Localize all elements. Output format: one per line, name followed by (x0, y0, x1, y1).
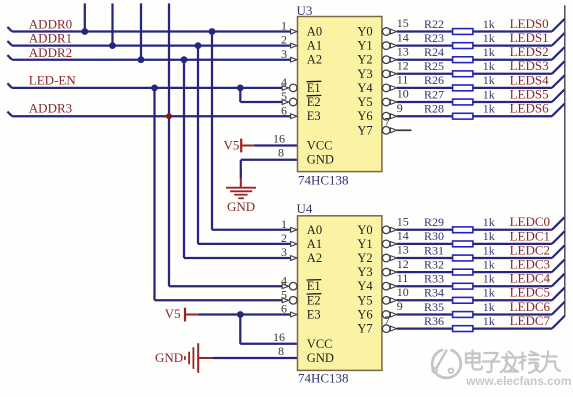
svg-text:11: 11 (397, 73, 409, 87)
svg-text:1k: 1k (483, 87, 495, 101)
svg-text:R27: R27 (424, 87, 444, 101)
junction ADDR0 / feeder (81, 28, 88, 35)
U3 pin name Y2 (357, 53, 372, 67)
resistor R25 (453, 71, 473, 77)
svg-text:VCC: VCC (307, 139, 333, 153)
svg-text:1k: 1k (483, 73, 495, 87)
svg-text:3: 3 (281, 47, 287, 61)
svg-text:Y4: Y4 (357, 279, 373, 293)
junction ADDR0 / U4 branch (209, 28, 216, 35)
wire U4 Y5 to resistor R34 (397, 299, 453, 301)
wire resistor R28 to LEDS6 (473, 115, 552, 117)
svg-text:1: 1 (281, 217, 287, 231)
svg-text:15: 15 (397, 215, 409, 229)
resistor R25 designator (424, 59, 444, 73)
off-sheet connector LEDC6 (552, 302, 565, 315)
U3 pin 1 (281, 19, 297, 34)
wire ground to U4 pin 8 (213, 357, 298, 359)
off-sheet connector LEDS1 (552, 33, 565, 46)
svg-text:15: 15 (397, 16, 409, 30)
svg-text:74HC138: 74HC138 (298, 371, 349, 386)
node LEDC5 label (510, 285, 550, 300)
resistor R28 designator (424, 102, 444, 116)
resistor R27 (453, 99, 473, 105)
svg-text:A1: A1 (307, 39, 322, 53)
resistor R31 (453, 255, 473, 261)
off-sheet connector LEDC5 (552, 288, 565, 301)
resistor R29 value 1k (483, 215, 495, 229)
wire U4 Y3 to resistor R32 (397, 271, 453, 273)
svg-text:E2: E2 (307, 293, 321, 307)
U4 pin 2 (281, 231, 297, 246)
off-sheet connector LEDC0 (552, 217, 565, 230)
U3 pin name E2 (307, 95, 322, 109)
svg-text:1k: 1k (483, 300, 495, 314)
svg-text:U3: U3 (297, 3, 313, 18)
U4 pin 3 (281, 245, 297, 260)
svg-text:A2: A2 (307, 53, 322, 67)
svg-text:R30: R30 (424, 229, 444, 243)
U3 pin name Y5 (357, 95, 372, 109)
svg-text:1k: 1k (483, 272, 495, 286)
resistor R32 (453, 269, 473, 275)
node LEDS6 label (510, 101, 549, 116)
svg-text:1k: 1k (483, 45, 495, 59)
svg-text:1k: 1k (483, 215, 495, 229)
U4 pin 6 (281, 302, 297, 317)
U4 reference designator (297, 201, 313, 216)
wire branch ADDR0 to U4 pin 1 (212, 32, 291, 230)
svg-text:14: 14 (397, 229, 409, 243)
resistor R24 value 1k (483, 45, 495, 59)
svg-text:9: 9 (397, 101, 403, 115)
resistor R33 designator (424, 272, 444, 286)
svg-text:Y2: Y2 (357, 53, 372, 67)
resistor R35 value 1k (483, 300, 495, 314)
off-sheet connector LEDS2 (552, 47, 565, 60)
ground symbol GND (upper) (226, 179, 256, 199)
svg-text:1k: 1k (483, 286, 495, 300)
off-sheet connector LEDS3 (552, 61, 565, 74)
resistor R35 designator (424, 300, 444, 314)
svg-text:E1: E1 (307, 279, 321, 293)
svg-text:Y3: Y3 (357, 265, 372, 279)
svg-text:74HC138: 74HC138 (298, 172, 349, 187)
U4 pin 4 (281, 273, 297, 290)
U4 pin 8 (278, 344, 284, 358)
wire resistor R33 to LEDC4 (473, 285, 552, 287)
svg-text:R32: R32 (424, 257, 444, 271)
wire V5 branch to U4 pin 16 (240, 315, 297, 344)
U4 pin name Y5 (357, 293, 372, 307)
svg-text:1k: 1k (483, 31, 495, 45)
svg-text:R34: R34 (424, 286, 444, 300)
junction V5 / U4 VCC branch (237, 311, 244, 318)
svg-text:LEDS4: LEDS4 (510, 72, 549, 87)
svg-text:LEDC1: LEDC1 (510, 228, 550, 243)
U4 pin name E2 (307, 293, 322, 307)
resistor R35 (453, 312, 473, 318)
svg-text:1: 1 (281, 19, 287, 33)
U3 pin name Y7 (357, 123, 372, 137)
junction LED-EN / U4 E2 branch (151, 85, 158, 92)
node LEDC2 label (510, 242, 550, 257)
node LEDS2 label (510, 44, 549, 59)
resistor R36 designator (424, 314, 444, 328)
U4 pin 1 (281, 217, 297, 232)
off-sheet connector LEDS5 (552, 89, 565, 102)
svg-text:1k: 1k (483, 59, 495, 73)
resistor R34 value 1k (483, 286, 495, 300)
power port V5 (lower) (165, 306, 199, 322)
node LEDS0 label (510, 16, 549, 31)
svg-text:V5: V5 (224, 137, 240, 152)
U3 pin name Y6 (357, 109, 372, 123)
U4 pin name A1 (307, 237, 322, 251)
U3 pin name A1 (307, 39, 322, 53)
svg-text:www.elecfans.com: www.elecfans.com (465, 374, 571, 388)
wire V5 to U3 pin 16 (255, 144, 298, 146)
wire resistor R29 to LEDC0 (473, 229, 552, 231)
off-sheet connector LEDS6 (552, 104, 565, 117)
svg-text:2: 2 (281, 231, 287, 245)
wire branch ADDR1 to U4 pin 2 (198, 46, 291, 244)
wire resistor R26 to LEDS4 (473, 87, 552, 89)
svg-text:5: 5 (281, 287, 287, 301)
U3 pin name VCC (307, 139, 333, 153)
svg-text:8: 8 (278, 146, 284, 160)
svg-text:1k: 1k (483, 229, 495, 243)
U3 pin 14 output Y1 (382, 30, 408, 49)
svg-text:R25: R25 (424, 59, 444, 73)
wire resistor R34 to LEDC5 (473, 299, 552, 301)
U3 pin name Y4 (357, 81, 373, 95)
svg-text:LEDS2: LEDS2 (510, 44, 549, 59)
svg-text:6: 6 (281, 103, 287, 117)
svg-text:R26: R26 (424, 73, 444, 87)
U3 pin 16 (273, 132, 285, 146)
svg-text:16: 16 (273, 330, 285, 344)
U4 pin name E3 (307, 308, 321, 322)
svg-text:13: 13 (397, 243, 409, 257)
wire resistor R32 to LEDC3 (473, 271, 552, 273)
node LEDC0 label (510, 214, 550, 229)
wire resistor R22 to LEDS0 (473, 30, 552, 32)
svg-text:1k: 1k (483, 243, 495, 257)
ground GND label (upper) (227, 199, 255, 214)
node ADDR2 label (29, 45, 72, 60)
svg-text:A0: A0 (307, 25, 322, 39)
resistor R27 value 1k (483, 87, 495, 101)
junction ADDR3 / U4 feeder (red) (166, 113, 172, 119)
U3 pin name E1 (307, 81, 322, 95)
wire U4 Y1 to resistor R30 (397, 243, 453, 245)
svg-text:E1: E1 (307, 81, 321, 95)
svg-text:Y2: Y2 (357, 251, 372, 265)
node LEDS5 label (510, 86, 549, 101)
U3 pin 8 (278, 146, 284, 160)
resistor R27 designator (424, 87, 444, 101)
resistor R26 value 1k (483, 73, 495, 87)
ground symbol GND (lower, sideways) (185, 343, 213, 373)
node ADDR1 label (29, 31, 72, 46)
svg-text:ADDR3: ADDR3 (29, 101, 72, 116)
U3 pin 3 (281, 47, 297, 62)
U3 pin 7 output Y7 (unconnected stub) (382, 115, 411, 134)
junction ADDR2 / feeder (138, 56, 145, 63)
node ADDR3 label (29, 101, 72, 116)
svg-text:Y3: Y3 (357, 67, 372, 81)
svg-text:Y1: Y1 (357, 39, 372, 53)
svg-text:A1: A1 (307, 237, 322, 251)
svg-text:LEDS0: LEDS0 (510, 16, 549, 31)
svg-text:LEDS1: LEDS1 (510, 30, 549, 45)
junction ADDR1 / U4 branch (195, 42, 202, 49)
resistor R30 designator (424, 229, 444, 243)
wire resistor R31 to LEDC2 (473, 257, 552, 259)
node LEDC3 label (510, 257, 550, 272)
wire resistor R24 to LEDS2 (473, 59, 552, 61)
svg-text:5: 5 (281, 89, 287, 103)
U4 pin name VCC (307, 337, 333, 351)
svg-text:Y4: Y4 (357, 81, 373, 95)
wire vertical feeder to node ADDR0 (84, 3, 86, 31)
junction ADDR1 / feeder (109, 42, 116, 49)
svg-text:LEDC2: LEDC2 (510, 242, 550, 257)
wire U4 Y0 to resistor R29 (397, 229, 453, 231)
U4 pin 11 output Y4 (382, 271, 408, 290)
U3 pin name Y0 (357, 25, 372, 39)
wire resistor R36 to LEDC7 (473, 327, 552, 329)
svg-text:R35: R35 (424, 300, 444, 314)
U3 pin name A2 (307, 53, 322, 67)
wire U4 Y7 to resistor R36 (397, 327, 453, 329)
resistor R34 (453, 297, 473, 303)
svg-text:LEDC5: LEDC5 (510, 285, 550, 300)
svg-text:ADDR1: ADDR1 (29, 31, 72, 46)
U4 pin name GND (307, 351, 334, 365)
node LEDS1 label (510, 30, 549, 45)
U4 pin 7 output Y7 (382, 313, 396, 332)
svg-text:4: 4 (281, 273, 287, 287)
svg-text:1k: 1k (483, 102, 495, 116)
U4 pin name E1 (307, 279, 322, 293)
resistor R24 (453, 57, 473, 63)
svg-text:Y6: Y6 (357, 308, 372, 322)
watermark logo circle (432, 350, 461, 378)
svg-text:GND: GND (155, 350, 183, 365)
U3 pin 5 (281, 89, 297, 106)
svg-text:Y0: Y0 (357, 223, 372, 237)
wire U3 Y2 to resistor R24 (397, 59, 453, 61)
node LEDC7 label (510, 313, 551, 328)
U3 pin 12 output Y3 (382, 59, 408, 78)
wire U3 Y4 to resistor R26 (397, 87, 453, 89)
U4 pin name Y3 (357, 265, 372, 279)
svg-text:LEDC0: LEDC0 (510, 214, 550, 229)
node LED-EN label (29, 72, 77, 87)
svg-text:10: 10 (397, 87, 409, 101)
U3 pin 10 output Y5 (382, 87, 408, 106)
off-sheet connector LEDS4 (552, 75, 565, 88)
watermark url www.elecfans.com (465, 374, 573, 390)
resistor R33 value 1k (483, 272, 495, 286)
wire U3 Y5 to resistor R27 (397, 101, 453, 103)
svg-text:6: 6 (281, 302, 287, 316)
resistor R29 (453, 227, 473, 233)
svg-text:R22: R22 (424, 17, 444, 31)
resistor R32 designator (424, 257, 444, 271)
U3 pin 2 (281, 33, 297, 48)
resistor R33 (453, 283, 473, 289)
svg-text:R24: R24 (424, 45, 444, 59)
resistor R36 (453, 326, 473, 332)
resistor R30 (453, 241, 473, 247)
junction ADDR2 / U4 branch (181, 56, 188, 63)
resistor R23 designator (424, 31, 444, 45)
svg-text:Y7: Y7 (357, 322, 372, 336)
resistor R28 (453, 113, 473, 119)
U3 value 74HC138 (298, 172, 349, 187)
svg-text:3: 3 (281, 245, 287, 259)
svg-text:13: 13 (397, 44, 409, 58)
wire resistor R35 to LEDC6 (473, 313, 552, 315)
U4 pin 16 (273, 330, 285, 344)
wire U4 Y6 to resistor R35 (397, 313, 453, 315)
svg-text:E3: E3 (307, 109, 321, 123)
svg-text:LEDC4: LEDC4 (510, 271, 551, 286)
svg-text:1k: 1k (483, 17, 495, 31)
svg-text:1k: 1k (483, 314, 495, 328)
U4 pin name Y2 (357, 251, 372, 265)
svg-text:A2: A2 (307, 251, 322, 265)
svg-text:4: 4 (281, 75, 287, 89)
svg-text:V5: V5 (165, 306, 181, 321)
resistor R28 value 1k (483, 102, 495, 116)
svg-text:LEDC3: LEDC3 (510, 257, 550, 272)
svg-text:ADDR0: ADDR0 (29, 17, 72, 32)
sheet border line (right) (564, 5, 566, 316)
U3 reference designator (297, 3, 313, 18)
svg-text:R23: R23 (424, 31, 444, 45)
resistor R26 (453, 85, 473, 91)
svg-text:1k: 1k (483, 257, 495, 271)
U3 pin 11 output Y4 (382, 73, 408, 92)
U4 pin name Y6 (357, 308, 372, 322)
power port V5 (upper) (224, 137, 255, 152)
wire resistor R23 to LEDS1 (473, 44, 552, 46)
wire U3 pin 8 to ground (241, 160, 298, 179)
U4 pin 10 output Y5 (382, 285, 408, 304)
resistor R29 designator (424, 215, 444, 229)
svg-text:LEDC7: LEDC7 (510, 313, 551, 328)
U4 pin 9 output Y6 (382, 299, 402, 318)
svg-text:R31: R31 (424, 243, 444, 257)
wire resistor R25 to LEDS3 (473, 73, 552, 75)
resistor R36 value 1k (483, 314, 495, 328)
wire vertical feeder through ADDR3 to U4 pin 4 (169, 3, 282, 286)
wire net ADDR0 to U3 pin 1 (7, 27, 290, 32)
U4 pin 15 output Y0 (382, 215, 408, 234)
off-sheet connector LEDC3 (552, 260, 565, 273)
ground GND label (lower) (155, 350, 183, 365)
svg-text:12: 12 (397, 59, 409, 73)
U4 pin name Y0 (357, 223, 372, 237)
wire branch LED-EN to U4 pin 5 (155, 88, 283, 300)
off-sheet connector LEDC4 (552, 274, 565, 287)
svg-text:9: 9 (397, 299, 403, 313)
svg-text:Y7: Y7 (357, 123, 372, 137)
svg-text:14: 14 (397, 30, 409, 44)
svg-text:LEDS3: LEDS3 (510, 58, 549, 73)
node LEDS4 label (510, 72, 549, 87)
node LEDS3 label (510, 58, 549, 73)
wire net ADDR2 to U3 pin 3 (7, 55, 290, 60)
svg-text:Y0: Y0 (357, 25, 372, 39)
U4 pin name Y4 (357, 279, 373, 293)
resistor R30 value 1k (483, 229, 495, 243)
watermark chinese text 电子发烧友 (466, 351, 561, 375)
svg-text:Y5: Y5 (357, 95, 372, 109)
svg-text:GND: GND (307, 153, 334, 167)
U3 pin name Y1 (357, 39, 372, 53)
off-sheet connector LEDS0 (552, 19, 565, 32)
off-sheet connector LEDC2 (552, 245, 565, 258)
svg-text:7: 7 (384, 115, 390, 129)
wire net ADDR3 to U3 pin 6 (7, 112, 290, 117)
svg-text:R36: R36 (424, 314, 444, 328)
U3 pin 4 (281, 75, 297, 92)
U4 pin name A0 (307, 223, 322, 237)
U3 pin name GND (307, 153, 334, 167)
U4 pin 5 (281, 287, 297, 304)
svg-text:Y1: Y1 (357, 237, 372, 251)
svg-text:LED-EN: LED-EN (29, 72, 77, 87)
wire vertical feeder to node ADDR1 (111, 3, 113, 45)
node LEDC6 label (510, 299, 551, 314)
resistor R22 (453, 29, 473, 35)
resistor R31 designator (424, 243, 444, 257)
wire U3 Y3 to resistor R25 (397, 73, 453, 75)
svg-text:Y5: Y5 (357, 293, 372, 307)
svg-text:16: 16 (273, 132, 285, 146)
U4 pin name Y1 (357, 237, 372, 251)
wire U4 Y2 to resistor R31 (397, 257, 453, 259)
svg-text:7: 7 (384, 313, 390, 327)
node ADDR0 label (29, 17, 72, 32)
svg-text:11: 11 (397, 271, 409, 285)
U4 pin 14 output Y1 (382, 229, 408, 248)
U4 value 74HC138 (298, 371, 349, 386)
wire resistor R27 to LEDS5 (473, 101, 552, 103)
svg-text:LEDC6: LEDC6 (510, 299, 551, 314)
svg-text:R29: R29 (424, 215, 444, 229)
resistor R24 designator (424, 45, 444, 59)
off-sheet connector LEDC1 (552, 231, 565, 244)
U4 pin 12 output Y3 (382, 257, 408, 276)
resistor R22 designator (424, 17, 444, 31)
svg-text:E3: E3 (307, 308, 321, 322)
svg-text:A0: A0 (307, 223, 322, 237)
wire net ADDR1 to U3 pin 2 (7, 41, 290, 46)
wire vertical feeder to node ADDR2 (140, 3, 142, 59)
svg-text:R33: R33 (424, 272, 444, 286)
op IC U4 74HC138 body (298, 216, 382, 371)
resistor R23 value 1k (483, 31, 495, 45)
svg-text:ADDR2: ADDR2 (29, 45, 72, 60)
svg-text:10: 10 (397, 285, 409, 299)
wire branch ADDR2 to U4 pin 3 (184, 60, 291, 258)
